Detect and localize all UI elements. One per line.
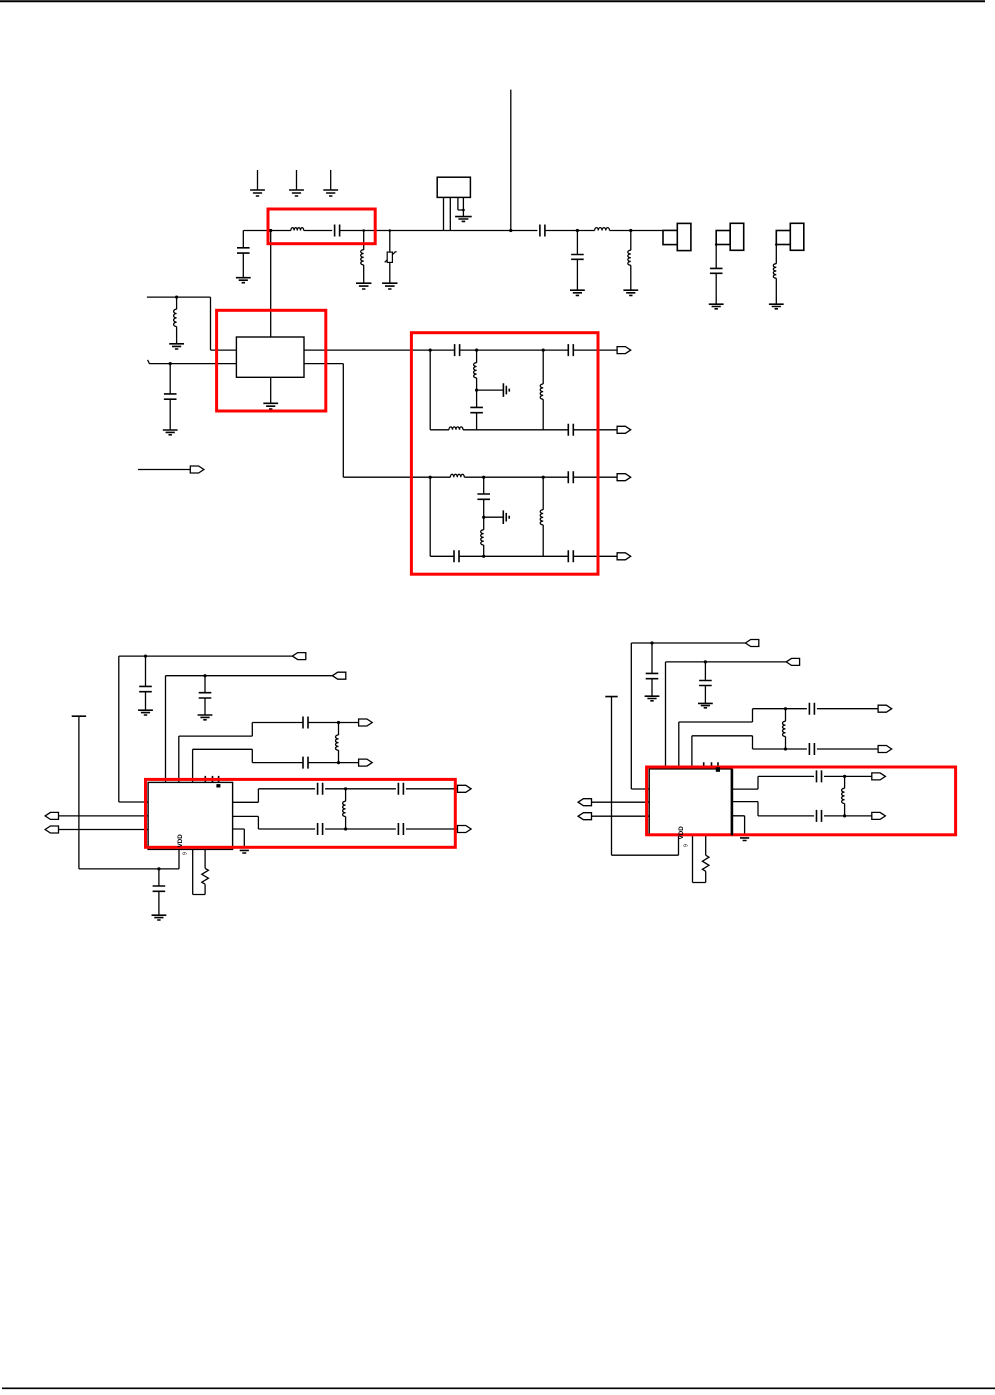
svg-text:VDD: VDD bbox=[678, 826, 685, 840]
svg-text:9: 9 bbox=[683, 844, 689, 847]
svg-text:9: 9 bbox=[182, 852, 188, 855]
svg-text:VDD: VDD bbox=[177, 834, 184, 848]
